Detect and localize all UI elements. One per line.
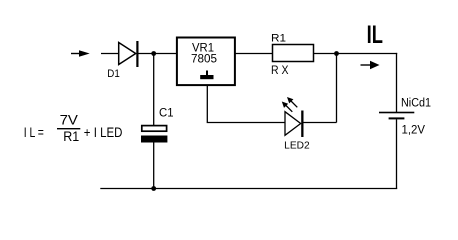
VR1 ground tab symbol xyxy=(200,71,213,80)
node junction R1 output / LED branch xyxy=(334,51,339,56)
wire VR1 output to R1 xyxy=(235,53,273,55)
IL current arrow xyxy=(361,61,380,69)
input current arrow xyxy=(71,50,90,57)
svg-text:D1: D1 xyxy=(107,68,120,80)
LED2 light emission arrows xyxy=(282,97,298,112)
wire diode cathode to VR1 input xyxy=(139,53,177,55)
wire top-right corner down to battery + xyxy=(396,53,398,112)
svg-text:LED2: LED2 xyxy=(284,141,310,152)
svg-text:NiCd1: NiCd1 xyxy=(401,98,431,110)
svg-text:R1: R1 xyxy=(271,32,286,44)
diode D1 xyxy=(119,41,139,67)
svg-text:IL: IL xyxy=(367,21,383,49)
formula IL = 7V/R1 + ILED xyxy=(24,113,123,145)
wire battery - down to bottom rail xyxy=(396,119,398,188)
battery NiCd1 xyxy=(379,112,414,120)
LED2 diode xyxy=(285,111,304,138)
bottom rail wire xyxy=(100,188,397,190)
svg-text:C1: C1 xyxy=(159,107,174,119)
svg-text:R1: R1 xyxy=(63,129,79,144)
svg-text:I L =: I L = xyxy=(24,125,44,140)
wire junction down to LED2 cathode xyxy=(336,54,338,123)
wire junction down to C1 xyxy=(153,54,155,126)
svg-text:7805: 7805 xyxy=(191,52,217,66)
VR1 ground pin wire down then right to LED2 anode xyxy=(207,85,284,123)
regulator VR1 box xyxy=(177,38,235,86)
node junction bottom rail / C1 xyxy=(151,186,156,191)
node junction at diode output / C1 top xyxy=(151,51,156,56)
capacitor C1 xyxy=(141,126,167,143)
wire input to diode anode xyxy=(101,53,119,55)
svg-text:+ I LED: + I LED xyxy=(84,125,123,140)
svg-text:7V: 7V xyxy=(60,113,78,128)
svg-text:R X: R X xyxy=(271,65,289,77)
svg-text:1,2V: 1,2V xyxy=(402,125,426,137)
wire R1 to top-right corner xyxy=(314,53,398,55)
wire C1 down to bottom rail xyxy=(153,143,155,189)
wire LED2 cathode to riser xyxy=(304,122,337,124)
resistor R1 xyxy=(273,45,314,62)
